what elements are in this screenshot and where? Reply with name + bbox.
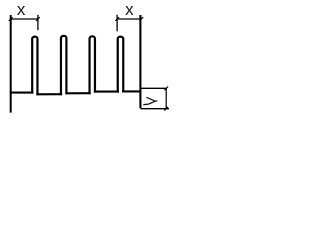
dimension line x (left) [11,18,38,20]
tick right end of x dim (right) [140,17,144,21]
wire baseline segment s1 [36,93,62,95]
extension line left of right x dim [116,15,118,32]
wire left wall [10,15,12,113]
tick left end of x dim (left) [9,17,13,21]
label x (left dimension) [17,0,26,20]
fin 2 [61,36,66,95]
dimension line x (right) [117,18,141,20]
extension line right of left x dim [37,15,39,30]
tick right end of x dim (left) [36,17,40,21]
extension line bottom of y dim [141,108,170,110]
wire baseline segment s4 [122,90,140,92]
tick top end of y dim [164,87,168,91]
dimension line y (vertical) [165,88,167,108]
tick bottom end of y dim [164,107,168,111]
tick left end of x dim (right) [115,17,119,21]
label x (right dimension) [125,0,134,20]
extension line top of y dim [141,87,168,89]
wire right wall [139,15,141,108]
wire baseline segment s0 [10,92,34,94]
wire baseline segment s2 [65,92,90,94]
fin 3 [90,36,95,94]
label y (rotated glyph) [143,97,157,104]
wire baseline segment s3 [94,91,119,93]
fin 4 [118,37,124,93]
fin 1 [32,37,37,96]
